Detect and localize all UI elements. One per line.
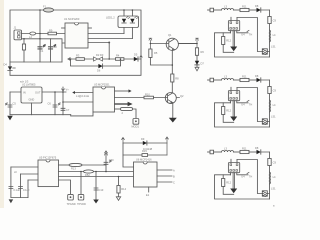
svg-text:C10: C10: [109, 158, 114, 162]
svg-text:L1@2.2mH: L1@2.2mH: [76, 94, 89, 98]
svg-text:R13: R13: [71, 167, 76, 171]
svg-text:R9: R9: [49, 28, 53, 32]
svg-text:IN: IN: [23, 91, 26, 95]
svg-text:U3 MCP2551: U3 MCP2551: [94, 83, 110, 87]
svg-text:D5: D5: [134, 53, 138, 57]
svg-text:C6: C6: [48, 102, 52, 106]
svg-text:Q1: Q1: [168, 33, 172, 37]
svg-text:D9: D9: [141, 137, 145, 141]
svg-text:0.1uF: 0.1uF: [13, 188, 20, 192]
svg-text:R5: R5: [154, 51, 158, 55]
svg-text:C5: C5: [13, 102, 17, 106]
svg-text:Q2: Q2: [180, 94, 184, 98]
svg-text:C: C: [173, 180, 175, 184]
svg-text:U6 MCP1416: U6 MCP1416: [136, 158, 152, 162]
svg-text:R15: R15: [142, 149, 147, 153]
svg-text:D4: D4: [4, 62, 8, 66]
svg-text:C13: C13: [99, 188, 104, 192]
svg-text:R4: R4: [116, 53, 120, 57]
svg-text:GND: GND: [29, 98, 35, 102]
svg-text:V+: V+: [66, 87, 70, 91]
svg-text:A: A: [173, 168, 175, 172]
svg-text:D2 D3: D2 D3: [96, 53, 104, 57]
svg-text:TPVDD: TPVDD: [77, 202, 86, 206]
svg-text:TPGND: TPGND: [67, 202, 76, 206]
svg-text:0.1uF: 0.1uF: [23, 188, 30, 192]
svg-text:R3: R3: [76, 53, 80, 57]
svg-text:FB2: FB2: [85, 173, 90, 177]
svg-text:D7: D7: [201, 61, 205, 65]
svg-text:R14: R14: [121, 187, 126, 191]
svg-text:C1: C1: [40, 49, 44, 53]
svg-text:MOD1: MOD1: [132, 125, 140, 129]
svg-text:R8: R8: [175, 76, 179, 80]
svg-text:OUT: OUT: [35, 91, 41, 95]
svg-text:D6: D6: [97, 69, 101, 73]
svg-text:U5 PIC12F675: U5 PIC12F675: [39, 155, 57, 159]
svg-text:R6: R6: [201, 50, 205, 54]
svg-text:C7: C7: [66, 108, 70, 112]
svg-text:E1: E1: [146, 193, 150, 197]
svg-text:xtl: xtl: [14, 170, 17, 174]
svg-text:B: B: [173, 174, 175, 178]
svg-text:U2 LM7805: U2 LM7805: [22, 83, 36, 87]
svg-text:LED1,2: LED1,2: [106, 16, 115, 20]
svg-text:R10: R10: [145, 92, 150, 96]
svg-text:U1 NCP1200: U1 NCP1200: [64, 17, 80, 21]
svg-text:C2: C2: [54, 45, 58, 49]
